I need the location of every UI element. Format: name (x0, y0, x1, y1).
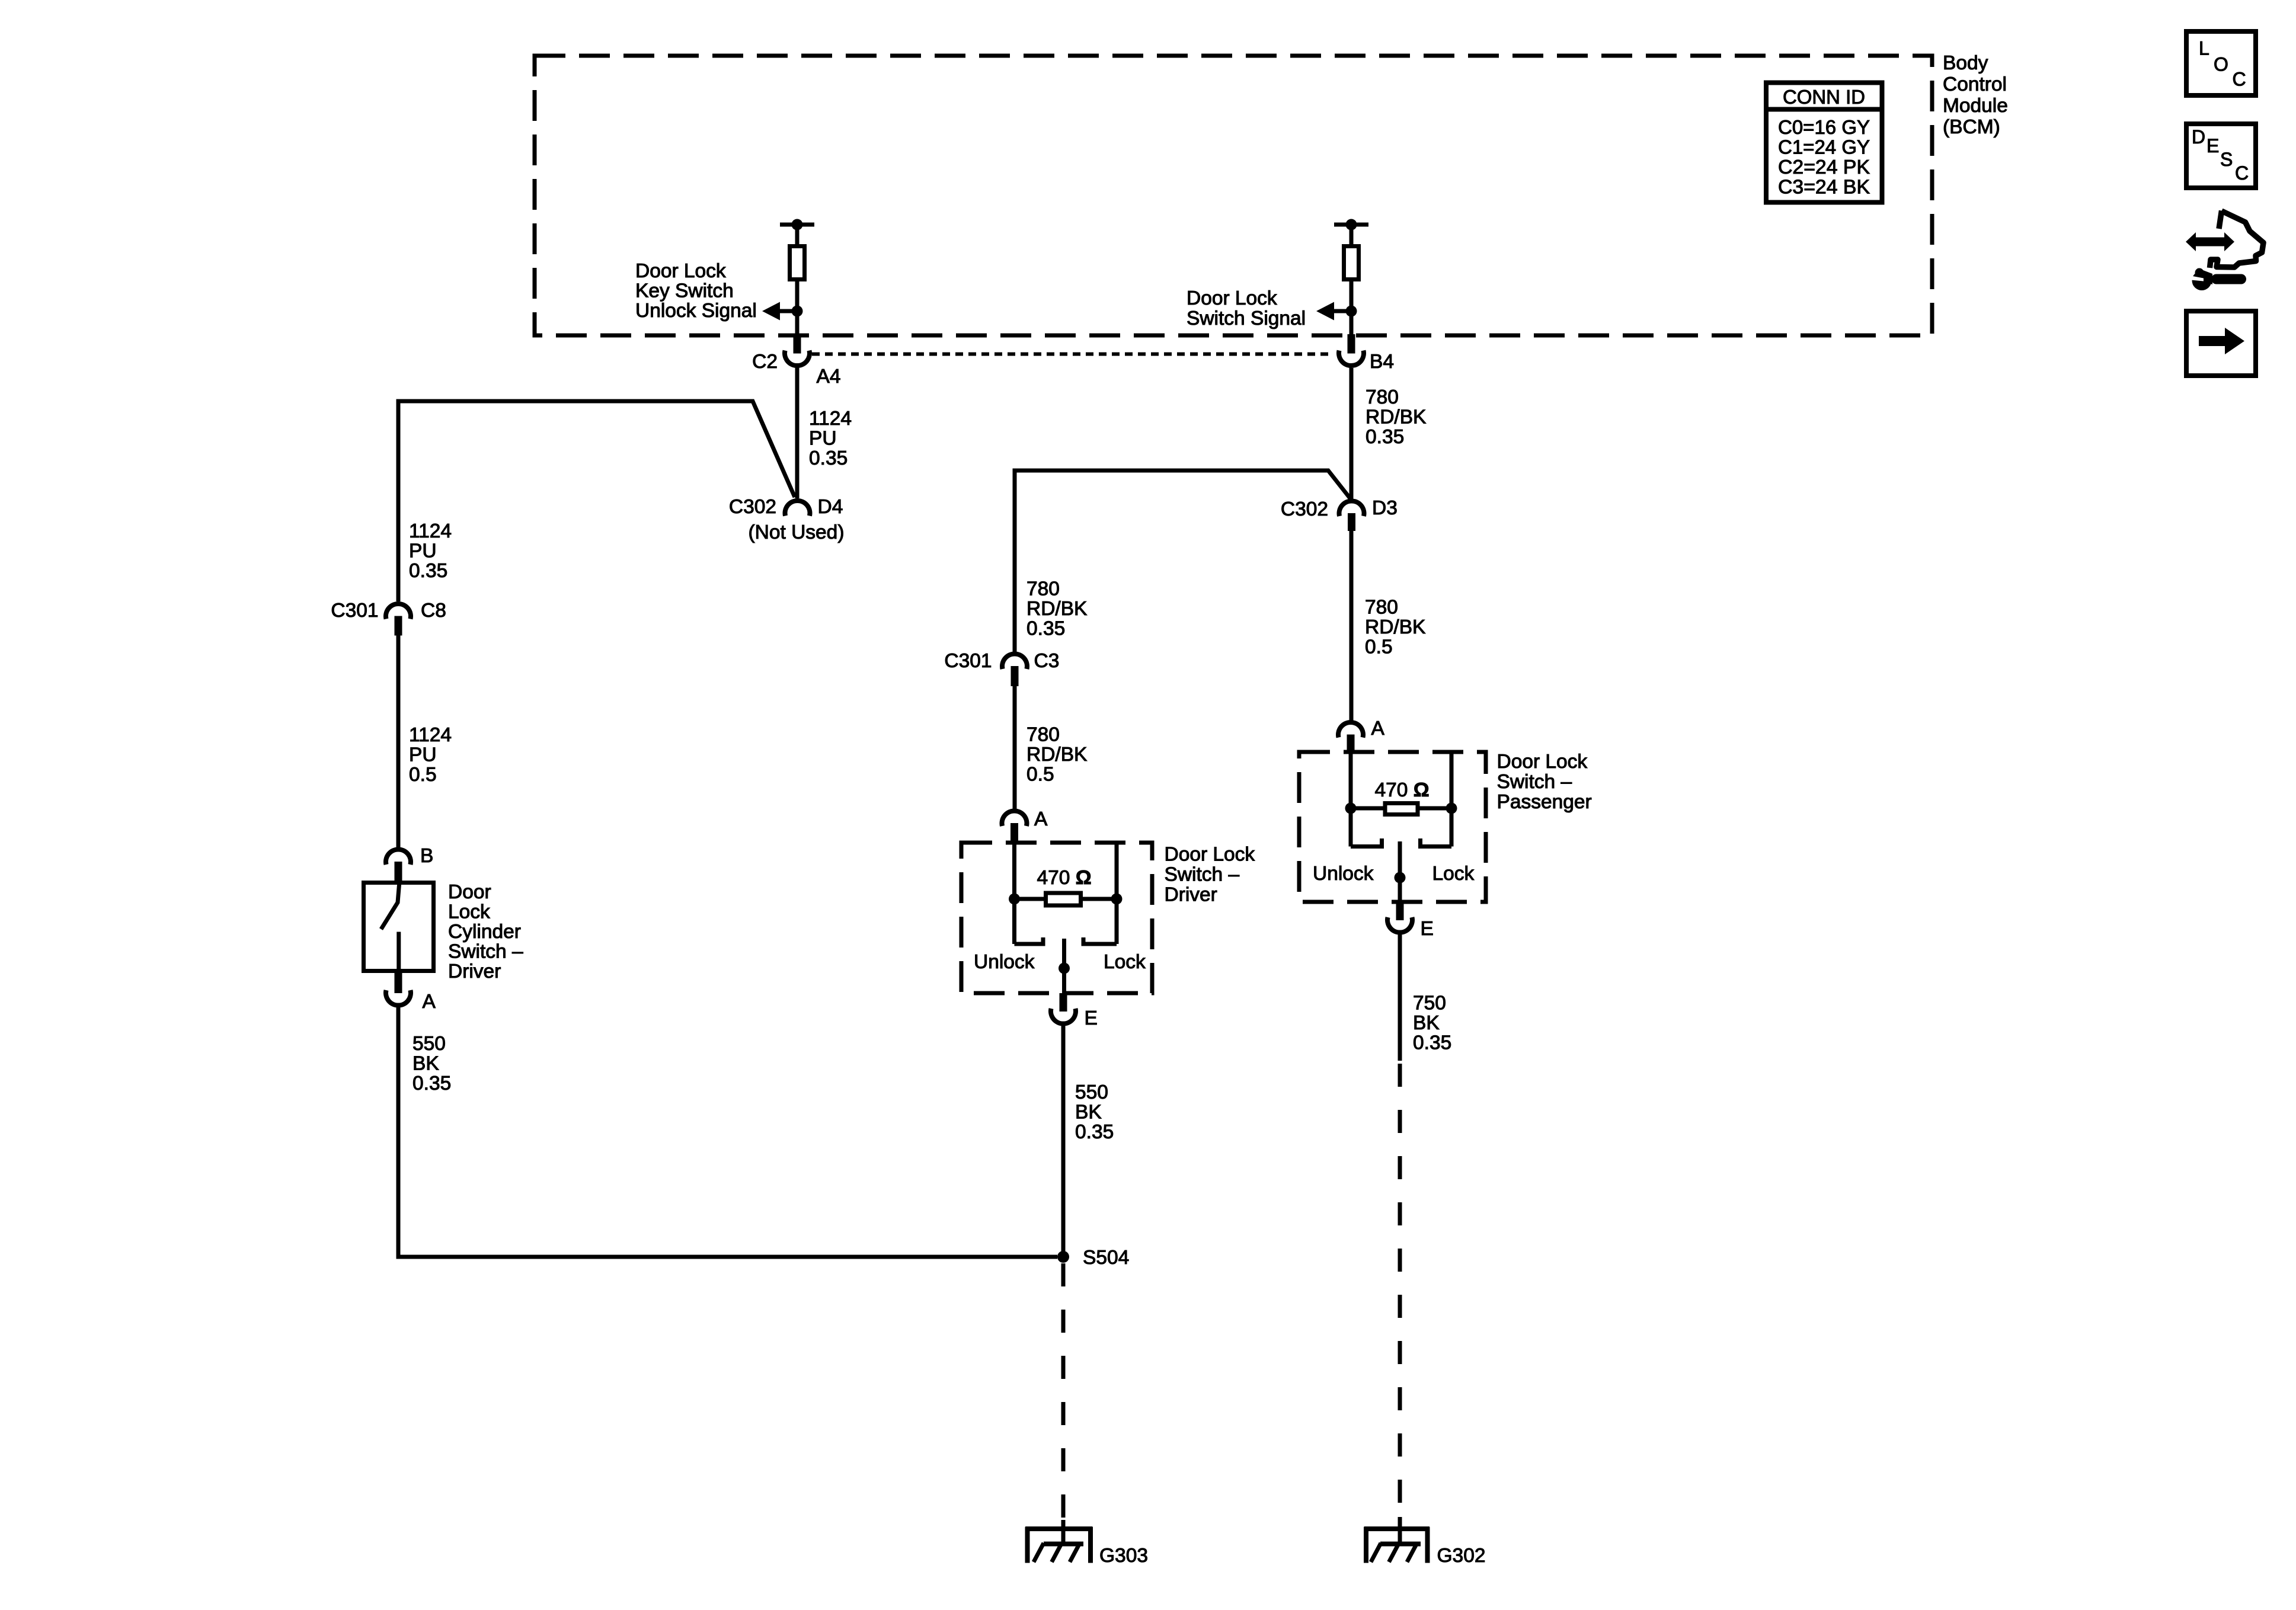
svg-text:Key Switch: Key Switch (635, 280, 734, 302)
wire 780 RD/BK 0.5 (D3 down to passenger A) (1350, 531, 1354, 721)
icon arrow box (2186, 311, 2256, 376)
passenger unlock contact (1351, 838, 1382, 847)
svg-text:0.5: 0.5 (1027, 764, 1054, 786)
svg-text:Body: Body (1943, 52, 1988, 74)
passenger lock contact (1421, 838, 1452, 847)
ground G303 (1025, 1526, 1093, 1531)
svg-text:A: A (423, 991, 436, 1013)
svg-text:PU: PU (409, 744, 437, 766)
svg-text:470 Ω: 470 Ω (1375, 779, 1430, 801)
svg-text:RD/BK: RD/BK (1366, 406, 1426, 428)
svg-text:A: A (1371, 718, 1385, 740)
passenger moving contact (1398, 841, 1402, 902)
svg-text:Driver: Driver (1165, 884, 1217, 906)
svg-text:D4: D4 (818, 496, 843, 518)
svg-text:Door: Door (448, 881, 491, 903)
svg-text:C3: C3 (1034, 650, 1060, 672)
driver switch left vertical (1012, 843, 1016, 944)
svg-text:CONN ID: CONN ID (1783, 87, 1865, 108)
svg-text:1124: 1124 (809, 408, 852, 430)
svg-text:BK: BK (1413, 1012, 1440, 1034)
svg-text:0.5: 0.5 (409, 764, 437, 786)
driver moving contact (1062, 939, 1066, 993)
wire 780 RD/BK 0.5 (C3 to driver switch A) (1013, 686, 1017, 809)
icon wrench and arrows (2186, 232, 2234, 251)
svg-text:Passenger: Passenger (1497, 791, 1592, 813)
resistor right (1344, 247, 1359, 280)
resistor (BCM switch signal input) stub (1334, 223, 1368, 227)
svg-text:780: 780 (1027, 578, 1060, 600)
svg-text:1124: 1124 (409, 724, 452, 746)
svg-text:E: E (1085, 1007, 1098, 1029)
svg-text:Door Lock: Door Lock (1497, 751, 1588, 773)
splice S504 (1057, 1251, 1069, 1263)
svg-text:C0=16 GY: C0=16 GY (1778, 117, 1870, 139)
svg-text:Door Lock: Door Lock (1187, 287, 1277, 309)
wire 550 BK 0.35 (cylinder to S504) (398, 1008, 1057, 1257)
connector E (driver switch) (1060, 993, 1067, 1012)
svg-text:C2: C2 (752, 351, 778, 373)
svg-text:750: 750 (1413, 993, 1446, 1014)
svg-text:Switch –: Switch – (1165, 864, 1240, 886)
svg-text:RD/BK: RD/BK (1027, 744, 1087, 766)
svg-text:C3=24 BK: C3=24 BK (1778, 177, 1870, 199)
svg-text:PU: PU (809, 428, 837, 450)
svg-text:B4: B4 (1370, 351, 1394, 373)
svg-text:D3: D3 (1372, 497, 1398, 519)
connector C302 D3 (1339, 501, 1364, 516)
door lock switch driver dashed box (961, 843, 1152, 993)
icon DESC box (2186, 124, 2256, 188)
svg-text:D: D (2192, 126, 2205, 148)
cylinder switch blade (381, 881, 399, 929)
svg-text:C2=24 PK: C2=24 PK (1778, 156, 1870, 178)
svg-text:0.35: 0.35 (809, 447, 848, 469)
dotted link C2 to B4 (812, 353, 1333, 356)
node passenger left (1345, 803, 1357, 814)
svg-text:0.35: 0.35 (1413, 1032, 1451, 1054)
connector A (driver switch) (1002, 811, 1027, 826)
svg-text:S: S (2220, 149, 2233, 170)
driver unlock contact (1015, 937, 1044, 944)
svg-text:780: 780 (1027, 724, 1060, 746)
svg-text:O: O (2214, 54, 2228, 75)
svg-text:Switch Signal: Switch Signal (1187, 308, 1306, 329)
connector B (cylinder switch) (386, 849, 411, 865)
svg-text:L: L (2199, 38, 2209, 59)
wire right horizontal to C302 D3 (1015, 470, 1350, 652)
dashed wire to G302 (1398, 1064, 1402, 1517)
node right junction (1346, 306, 1357, 317)
svg-text:RD/BK: RD/BK (1027, 598, 1087, 620)
svg-text:B: B (420, 845, 433, 867)
driver lock contact (1083, 937, 1117, 944)
svg-text:Switch –: Switch – (1497, 771, 1572, 793)
svg-text:BK: BK (412, 1053, 439, 1075)
connector A (cylinder switch) (395, 973, 402, 993)
svg-text:C: C (2235, 162, 2249, 184)
resistor left (790, 247, 805, 280)
svg-text:Module: Module (1943, 95, 2008, 117)
svg-text:Switch –: Switch – (448, 941, 523, 963)
svg-text:S504: S504 (1083, 1247, 1129, 1269)
connector C302 D4 (Not Used) (785, 501, 810, 516)
svg-text:E: E (1421, 918, 1434, 940)
svg-text:C1=24 GY: C1=24 GY (1778, 137, 1870, 159)
wire label 780 RD/BK 0.35 (driver branch) (1027, 578, 1087, 640)
svg-text:C8: C8 (421, 600, 446, 622)
arrow Door Lock Switch Signal (1334, 309, 1351, 313)
door lock switch passenger dashed box (1299, 752, 1486, 902)
svg-text:780: 780 (1366, 386, 1399, 408)
svg-text:A: A (1034, 808, 1048, 830)
svg-text:RD/BK: RD/BK (1365, 616, 1425, 638)
svg-text:Unlock: Unlock (1313, 863, 1374, 885)
svg-text:C301: C301 (331, 600, 378, 622)
svg-text:E: E (2207, 135, 2219, 156)
arrow Door Lock Key Switch Unlock Signal (780, 309, 797, 313)
wire label 1124 PU 0.35 (left branch) (409, 520, 452, 582)
door lock cylinder switch driver box (364, 883, 434, 971)
svg-text:780: 780 (1365, 597, 1398, 619)
wire 550 BK 0.35 (driver E to S504) (1061, 1026, 1066, 1257)
node left junction (792, 306, 803, 317)
connector C2 pin A4 (794, 334, 801, 354)
svg-text:Unlock Signal: Unlock Signal (635, 300, 757, 322)
node driver right (1111, 894, 1123, 905)
wire 750 BK 0.35 (passenger E to G302) (1398, 935, 1402, 1061)
resistor 470 ohm passenger (1351, 806, 1385, 811)
svg-text:0.35: 0.35 (1027, 618, 1065, 640)
svg-text:550: 550 (412, 1033, 446, 1055)
svg-text:1124: 1124 (409, 520, 452, 542)
passenger switch right vertical (1450, 752, 1454, 847)
BCM dashed box (535, 56, 1932, 335)
svg-text:Lock: Lock (1432, 863, 1475, 885)
svg-text:Lock: Lock (1104, 951, 1146, 973)
node driver left (1009, 894, 1020, 905)
svg-text:A4: A4 (817, 366, 841, 388)
connector C301 C3 (1002, 654, 1027, 669)
svg-text:C301: C301 (944, 650, 992, 672)
svg-text:Control: Control (1943, 73, 2007, 95)
driver switch right vertical (1115, 843, 1119, 944)
svg-text:C302: C302 (729, 496, 776, 518)
svg-text:Lock: Lock (448, 901, 490, 923)
svg-text:G303: G303 (1099, 1545, 1148, 1567)
svg-text:BK: BK (1075, 1102, 1102, 1124)
connector E (passenger switch) (1396, 902, 1404, 921)
connector A (passenger switch) (1338, 722, 1363, 738)
ground G302 (1364, 1526, 1430, 1531)
icon LOC box (2186, 31, 2256, 95)
node passenger right (1446, 803, 1457, 814)
svg-text:(Not Used): (Not Used) (749, 521, 845, 543)
svg-text:PU: PU (409, 540, 437, 562)
dashed wire S504 to G303 (1061, 1263, 1066, 1520)
svg-text:Driver: Driver (448, 961, 501, 982)
svg-text:(BCM): (BCM) (1943, 116, 2000, 138)
resistor 470 ohm driver (1015, 897, 1044, 901)
CONN ID table (1766, 83, 1882, 203)
svg-text:0.35: 0.35 (412, 1073, 451, 1094)
BCM module label (1943, 52, 2008, 138)
passenger switch left vertical (1349, 752, 1353, 847)
connector B4 (1348, 334, 1355, 354)
svg-text:Door Lock: Door Lock (1165, 844, 1255, 866)
svg-text:0.35: 0.35 (409, 560, 447, 582)
svg-text:C302: C302 (1281, 498, 1328, 520)
svg-text:C: C (2233, 69, 2246, 90)
wire 1124 PU 0.35 (C2 down) (795, 368, 800, 498)
resistor (BCM key switch input) stub (780, 223, 814, 227)
svg-text:0.5: 0.5 (1365, 636, 1393, 658)
svg-text:Unlock: Unlock (974, 951, 1035, 973)
wire 1124 PU 0.5 (396, 636, 401, 848)
svg-text:0.35: 0.35 (1075, 1121, 1114, 1143)
svg-text:470 Ω: 470 Ω (1037, 867, 1092, 889)
svg-text:550: 550 (1075, 1081, 1108, 1103)
svg-text:G302: G302 (1437, 1545, 1486, 1567)
connector C301 C8 (386, 604, 411, 619)
wire 780 RD/BK 0.35 (B4 to C302 D3) (1350, 368, 1354, 499)
wire left horizontal to C302 D4 (398, 401, 795, 601)
svg-text:0.35: 0.35 (1366, 426, 1404, 448)
svg-text:Door Lock: Door Lock (635, 260, 726, 282)
svg-text:Cylinder: Cylinder (448, 921, 521, 943)
